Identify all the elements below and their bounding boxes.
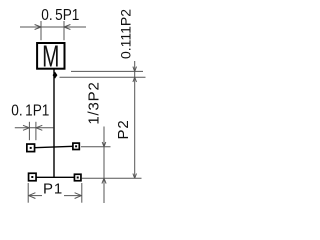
pad top-left (27, 144, 35, 152)
vertical lead wire (53, 69, 55, 178)
dimension 0.111P2 arrows (133, 61, 137, 82)
motor box M (37, 38, 64, 73)
dimension label P2 (rotated) (115, 120, 132, 140)
dimension line P2 (133, 77, 137, 178)
dimension label 0.5P1 (41, 7, 79, 24)
pad bottom-right (74, 174, 81, 181)
svg-text:0.111P2: 0.111P2 (118, 9, 134, 59)
svg-text:M: M (42, 38, 59, 73)
wire row 1 (35, 146, 74, 147)
dimension label 0.1P1 (11, 103, 49, 120)
dimension 1/3P2 line and arrows (102, 127, 106, 204)
extension line top (box bottom level) (71, 70, 143, 72)
dimension label 1/3P2 (rotated) (86, 81, 103, 124)
dimension label 0.111P2 (rotated) (118, 9, 134, 59)
dimension line 0.5P1 with outside arrows (20, 21, 86, 40)
svg-text:0.1P1: 0.1P1 (11, 103, 49, 120)
extension line (diamond level) (60, 76, 146, 78)
extension line below pad bottom-right (81, 183, 83, 203)
svg-text:P1: P1 (43, 181, 63, 198)
polarity diamond on lead (53, 72, 58, 79)
svg-text:P2: P2 (115, 120, 132, 140)
pad bottom-left (29, 173, 37, 181)
dimension label P1 (43, 181, 63, 198)
extension line below pad bottom-left (27, 183, 29, 203)
extension line row 1 right (81, 146, 111, 148)
dimension 0.1P1 line with outside arrows (15, 122, 54, 140)
extension line row 2 right (82, 177, 142, 179)
dimension line P1 with arrows (28, 193, 82, 199)
pad top-right (73, 143, 79, 149)
wire row 2 (36, 176, 75, 178)
svg-text:1/3P2: 1/3P2 (86, 81, 103, 124)
svg-text:0.5P1: 0.5P1 (41, 7, 79, 24)
